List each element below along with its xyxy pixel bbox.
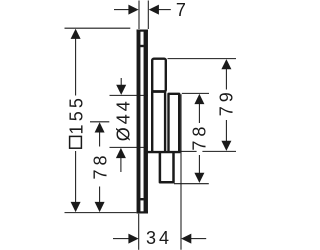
wall plate right edge band xyxy=(144,30,148,214)
dim 155 top arrow xyxy=(71,29,81,39)
wall plate left edge band xyxy=(137,30,141,214)
dim 7 right arrow xyxy=(149,5,159,15)
dim d44 top shaft xyxy=(120,78,122,86)
dim 7 left arrow xyxy=(128,5,138,15)
dim 79 bottom arrow xyxy=(221,141,231,151)
dim 34 right arrow xyxy=(181,234,191,244)
ext line d44 bottom xyxy=(110,146,148,148)
ext line 79 bottom left part xyxy=(182,150,197,152)
lower knob base shelf xyxy=(147,151,180,153)
dim 78 right top arrow xyxy=(194,94,204,104)
svg-text:78: 78 xyxy=(90,151,110,179)
extension line 7 right xyxy=(147,1,149,30)
upper knob xyxy=(152,59,166,92)
label 155 square symbol xyxy=(70,136,82,148)
dim 78 right bottom arrow xyxy=(194,173,204,183)
ext line 78 right top xyxy=(182,92,209,94)
lower knob front cap xyxy=(169,94,180,152)
plate divider lower xyxy=(140,198,143,200)
svg-text:34: 34 xyxy=(146,228,172,248)
ext line 79 top xyxy=(168,58,237,60)
dim 79 upper segment xyxy=(225,69,227,90)
svg-text:155: 155 xyxy=(66,95,86,135)
dim 79 top arrow xyxy=(221,59,231,69)
dim 7 right line xyxy=(159,9,171,11)
svg-text:7: 7 xyxy=(176,0,186,20)
dim 155 line lower segment xyxy=(75,151,77,203)
ext line 79 bottom right part xyxy=(202,150,236,152)
dim 34 left arrow xyxy=(128,234,138,244)
svg-text:Ø44: Ø44 xyxy=(113,98,133,141)
lower knob collar xyxy=(152,92,165,153)
ext line 78 right bottom xyxy=(174,183,209,185)
dim 78 left upper segment xyxy=(99,132,101,147)
ext tick 78 left at knob axis xyxy=(90,121,109,123)
dim 78 left top arrow xyxy=(95,122,105,132)
dim d44 top arrow xyxy=(116,85,126,95)
wall plate bottom edge xyxy=(137,211,148,213)
ext line 34 left xyxy=(138,214,140,250)
plate divider upper xyxy=(140,45,143,47)
svg-text:79: 79 xyxy=(216,88,236,116)
bottom small knob xyxy=(160,153,174,183)
dim 155 bottom arrow xyxy=(71,202,81,212)
ext line 155 bottom xyxy=(65,212,137,214)
extension line 7 left xyxy=(138,1,140,30)
dim d44 bottom arrow xyxy=(116,148,126,158)
dim 34 left line xyxy=(113,238,129,240)
dim 78 left bottom arrow xyxy=(95,202,105,212)
ext line 155 top xyxy=(65,27,131,29)
dim 79 lower segment xyxy=(225,120,227,142)
ext line d44 top xyxy=(110,94,148,96)
dim 7 left line xyxy=(114,9,129,11)
dim d44 bottom shaft xyxy=(120,158,122,173)
dim 78 right upper segment xyxy=(198,103,200,123)
dim 78 left lower segment xyxy=(99,187,101,204)
svg-text:78: 78 xyxy=(189,123,209,151)
ext line 34 right xyxy=(180,94,182,250)
dim 155 line upper segment xyxy=(75,38,77,96)
dim 78 right lower segment xyxy=(198,155,200,174)
dim 34 right line xyxy=(191,238,206,240)
wall plate top edge xyxy=(137,30,148,32)
